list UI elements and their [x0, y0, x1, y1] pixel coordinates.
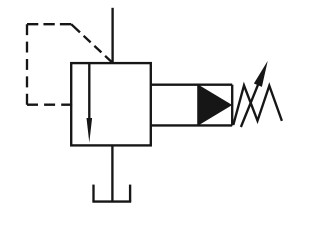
solenoid box right edge	[231, 85, 233, 126]
adjustment arrow line	[241, 85, 258, 127]
tank symbol bottom	[92, 200, 131, 202]
valve body V1	[71, 63, 151, 145]
pilot line dashed left vertical	[26, 24, 28, 105]
tank port line (bottom vertical)	[111, 145, 113, 200]
solenoid top connector line	[151, 84, 232, 86]
pilot line dashed top horizontal	[27, 23, 71, 25]
flow arrow shaft	[88, 63, 90, 121]
spring (zigzag)	[233, 85, 282, 125]
tank symbol right wall	[129, 185, 131, 202]
inlet port line P (top vertical)	[111, 8, 113, 63]
pilot line dashed bottom horizontal	[27, 104, 72, 106]
tank symbol left wall	[92, 185, 94, 202]
solenoid box left edge	[197, 85, 199, 126]
solenoid triangle (proportional pilot)	[198, 85, 232, 126]
pilot line dashed diagonal	[71, 24, 112, 62]
adjustment arrowhead	[254, 61, 268, 87]
flow arrowhead	[87, 118, 93, 143]
solenoid bottom connector line	[151, 124, 232, 126]
